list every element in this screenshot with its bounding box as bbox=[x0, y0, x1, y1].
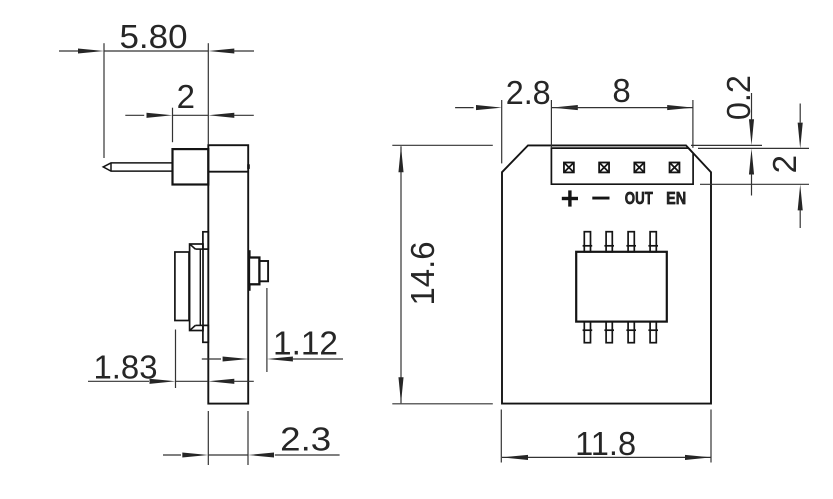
svg-text:5.80: 5.80 bbox=[120, 18, 188, 55]
svg-text:11.8: 11.8 bbox=[575, 425, 636, 462]
svg-text:2: 2 bbox=[766, 153, 803, 173]
svg-text:2: 2 bbox=[177, 78, 197, 115]
svg-text:14.6: 14.6 bbox=[404, 242, 441, 306]
svg-text:EN: EN bbox=[666, 188, 686, 208]
svg-text:1.83: 1.83 bbox=[94, 349, 158, 386]
svg-text:2.8: 2.8 bbox=[506, 74, 551, 111]
svg-text:2.3: 2.3 bbox=[280, 421, 331, 458]
svg-text:OUT: OUT bbox=[625, 188, 653, 208]
svg-text:8: 8 bbox=[612, 72, 632, 109]
svg-text:1.12: 1.12 bbox=[273, 325, 338, 362]
svg-text:0.2: 0.2 bbox=[720, 75, 757, 120]
